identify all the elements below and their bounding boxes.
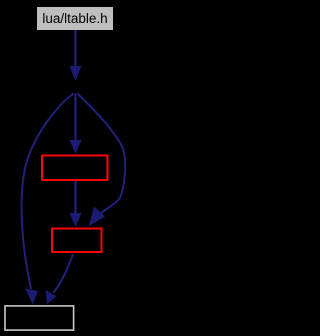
wire: straight arrow from red box 1 to red box 2 [70, 181, 82, 227]
include node 2 (red truncated box) [52, 229, 102, 253]
include node 3 (bottom box, light border) [5, 306, 74, 330]
include node 1 (red truncated box) [42, 156, 108, 181]
wire: arrow from red box 2 down-left to bottom box [46, 254, 74, 304]
node lua/ltable.h (current file, gray box) [37, 7, 113, 30]
wire: arrow from lua/ltable.h down to hidden node [69, 30, 81, 81]
wire: left long curve from hidden node to bottom box [22, 94, 74, 305]
wire: straight arrow from hidden node to red box 1 [70, 94, 82, 155]
svg-text:lua/ltable.h: lua/ltable.h [42, 11, 107, 26]
wire: right curve from hidden node to red box 2 [78, 94, 126, 227]
